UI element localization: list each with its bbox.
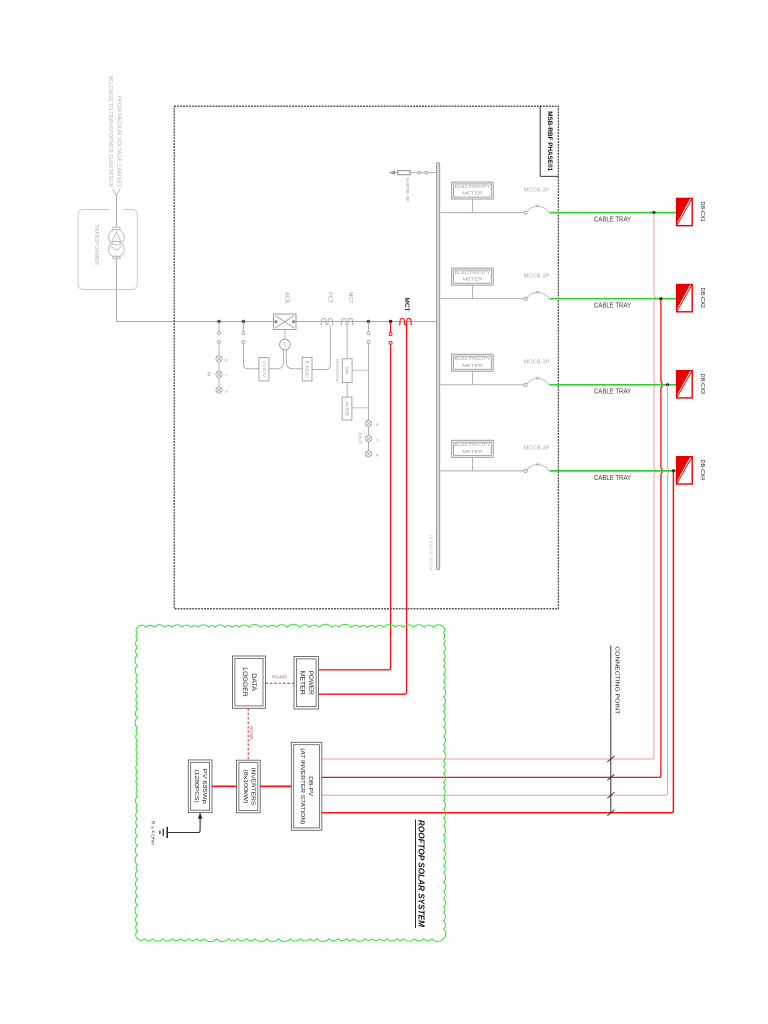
svg-text:SURGE-3P: SURGE-3P <box>405 178 410 202</box>
svg-text:METER: METER <box>462 277 483 283</box>
svg-text:ACB: ACB <box>284 292 290 304</box>
svg-text:B: B <box>376 423 379 427</box>
svg-text:RS485: RS485 <box>249 726 254 741</box>
svg-text:R: R <box>376 454 379 458</box>
svg-text:R ≤ 4 Ohm: R ≤ 4 Ohm <box>150 821 155 845</box>
svg-text:INVERTERS: INVERTERS <box>250 768 256 806</box>
svg-text:DB-CX2: DB-CX2 <box>699 287 705 308</box>
svg-text:CABLE TRAY: CABLE TRAY <box>594 303 631 310</box>
svg-text:PV 635Wp: PV 635Wp <box>201 769 207 804</box>
svg-text:FROM MEDIUM VOLTAGE CABINET: FROM MEDIUM VOLTAGE CABINET <box>116 95 122 187</box>
svg-text:ELECTRICITY: ELECTRICITY <box>455 184 491 190</box>
svg-text:DB-PV: DB-PV <box>307 776 313 796</box>
svg-text:RS485: RS485 <box>272 675 287 680</box>
svg-text:BELONGS TO TRANSFORMER SUBSTAT: BELONGS TO TRANSFORMER SUBSTATION <box>107 75 113 187</box>
svg-text:MCCB-3P: MCCB-3P <box>524 446 551 452</box>
svg-text:METER: METER <box>299 671 306 695</box>
svg-text:MM: MM <box>345 367 350 374</box>
svg-text:ROOFTOP SOLAR SYSTEM: ROOFTOP SOLAR SYSTEM <box>417 820 426 927</box>
svg-text:(1280PCS): (1280PCS) <box>193 770 199 803</box>
svg-text:IN: IN <box>205 372 211 377</box>
svg-text:METER: METER <box>462 449 483 455</box>
svg-text:MSB-RBF PHASE01: MSB-RBF PHASE01 <box>546 111 553 172</box>
svg-text:ST: ST <box>282 342 287 348</box>
svg-text:Y: Y <box>376 438 379 442</box>
svg-text:PCT: PCT <box>327 292 333 304</box>
svg-text:CABLE TRAY: CABLE TRAY <box>594 389 631 396</box>
svg-text:LV/CV: LV/CV <box>261 361 266 378</box>
svg-text:(AT INVERTER STATION): (AT INVERTER STATION) <box>299 748 305 824</box>
svg-text:BUSBAR 2500A: BUSBAR 2500A <box>428 535 433 571</box>
svg-text:CABLE TRAY: CABLE TRAY <box>594 475 631 482</box>
svg-text:MCCB-3P: MCCB-3P <box>524 273 551 279</box>
svg-text:ELECTRICITY: ELECTRICITY <box>455 270 491 276</box>
svg-text:ELECTRICITY: ELECTRICITY <box>455 442 491 448</box>
svg-text:POWER: POWER <box>307 671 314 695</box>
svg-text:DB-CX4: DB-CX4 <box>699 460 705 481</box>
svg-text:CONNECTING POINT: CONNECTING POINT <box>613 646 619 715</box>
svg-text:AVR/B: AVR/B <box>345 401 350 416</box>
svg-text:MCT: MCT <box>403 298 409 312</box>
svg-text:OUT: OUT <box>356 432 362 444</box>
svg-text:B: B <box>225 390 228 394</box>
svg-text:DATA: DATA <box>250 673 257 691</box>
svg-text:DB-CX1: DB-CX1 <box>699 201 705 222</box>
svg-text:ELECTRICITY: ELECTRICITY <box>455 356 491 362</box>
svg-text:(8x100kW): (8x100kW) <box>242 770 248 804</box>
svg-text:MCT: MCT <box>347 292 353 304</box>
svg-text:LOGGER: LOGGER <box>241 667 248 697</box>
svg-text:E-MDC: E-MDC <box>305 361 310 379</box>
svg-text:MCCB-3P: MCCB-3P <box>524 360 551 366</box>
svg-text:R: R <box>225 359 228 363</box>
svg-text:METER: METER <box>462 363 483 369</box>
svg-text:METER: METER <box>462 191 483 197</box>
svg-text:DB-CX3: DB-CX3 <box>699 374 705 395</box>
svg-text:CABLE TRAY: CABLE TRAY <box>594 217 631 224</box>
svg-text:TRANSFORMER: TRANSFORMER <box>93 224 99 265</box>
svg-text:Multimeter: Multimeter <box>335 359 340 384</box>
svg-text:MCCB-3P: MCCB-3P <box>524 187 551 193</box>
svg-text:Y: Y <box>225 374 228 378</box>
